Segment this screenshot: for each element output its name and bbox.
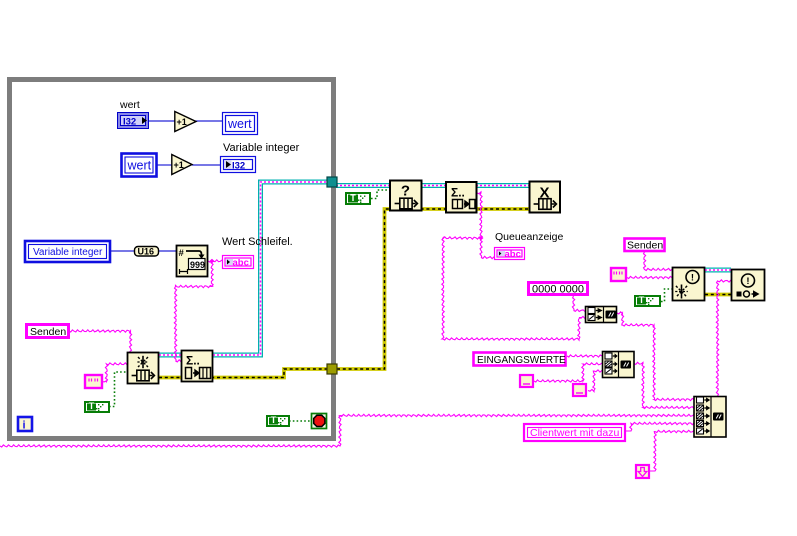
coercion bubble U16 xyxy=(135,247,159,257)
wire EINGANGSWERTE to concat B xyxy=(567,355,602,357)
node number-to-decimal-string xyxy=(177,246,208,277)
tunnel (queue refnum) on loop border xyxy=(327,177,337,187)
wire +1 to I32 indicator (row2) xyxy=(192,164,221,166)
wire queue status string out xyxy=(477,192,494,259)
svg-text:#: # xyxy=(179,248,185,259)
node release queue (X) xyxy=(530,182,561,213)
node obtain notifier xyxy=(673,268,705,301)
wire wert control to +1 (row2) xyxy=(156,164,172,166)
node concatenate strings A (2 inputs) xyxy=(586,307,617,323)
boolean constant to queue status (T) xyxy=(346,193,370,204)
wire number-to-string to Wert Schleifel indicator xyxy=(208,260,222,262)
wire T to obtain notifier xyxy=(661,289,672,302)
junction on queue status string xyxy=(479,236,484,241)
svg-text:wert: wert xyxy=(127,159,152,173)
while loop border xyxy=(10,80,334,439)
indicator "EINGANGSWERTE" xyxy=(474,353,567,367)
node concatenate strings B (3 inputs) xyxy=(603,352,635,378)
svg-text:wert: wert xyxy=(119,99,140,111)
boolean constant loop (to obtain queue) (T) xyxy=(85,401,109,412)
wire Variable integer to U16 xyxy=(110,250,135,252)
node queue status (?) xyxy=(390,181,422,211)
wire loop output long wire to big concat xyxy=(0,414,694,447)
control terminal I32 "wert" xyxy=(118,113,149,129)
wire Clientwert mit dazu to big concat xyxy=(626,422,694,431)
empty string constant xyxy=(85,375,102,388)
svg-text:Σ..: Σ.. xyxy=(186,354,200,368)
empty string constant 2 xyxy=(611,268,626,281)
node concatenate strings C (5 inputs) xyxy=(694,397,726,438)
svg-text:I32: I32 xyxy=(123,117,136,128)
wire string branch to lower concat xyxy=(442,237,585,340)
node flush queue xyxy=(446,182,477,213)
wire concat B out to big concat xyxy=(634,362,694,408)
wire T to obtain queue xyxy=(109,372,127,407)
wire notifier refnum (queue refnum) xyxy=(705,268,731,273)
wire empty string 2 to obtain notifier xyxy=(627,276,672,278)
svg-text:+1: +1 xyxy=(174,160,184,170)
svg-text:!: ! xyxy=(691,272,694,283)
node obtain queue xyxy=(128,353,159,384)
svg-text:EINGANGSWERTE: EINGANGSWERTE xyxy=(477,355,566,366)
wire enqueue up through tunnel to release queue (queue refnum) xyxy=(213,182,332,355)
iteration terminal i xyxy=(18,417,32,432)
svg-text:+1: +1 xyxy=(177,117,187,127)
wire notifier error (error cluster) xyxy=(705,293,731,297)
control "Variable integer" xyxy=(25,241,110,262)
control "Clientwert mit dazu" xyxy=(524,424,625,441)
control "Senden" (2) xyxy=(625,239,665,252)
svg-text:abc: abc xyxy=(233,258,249,269)
wire Senden 2 to obtain notifier xyxy=(644,252,673,271)
svg-text:T: T xyxy=(89,401,95,411)
svg-text:?: ? xyxy=(401,183,410,200)
wire 0000 0000 to concat A xyxy=(572,296,585,312)
wire I32 control to +1 (row1) xyxy=(148,120,175,122)
svg-text:Variable integer: Variable integer xyxy=(223,142,300,154)
wire T to queue status node xyxy=(371,190,390,199)
loop condition stop button xyxy=(312,414,327,429)
svg-text:Σ..: Σ.. xyxy=(451,186,465,200)
wire Senden to obtain queue xyxy=(69,330,132,352)
string indicator terminal "Wert Schleifel." (abc) xyxy=(223,256,254,269)
svg-text:abc: abc xyxy=(505,249,521,260)
svg-text:!: ! xyxy=(746,276,749,287)
svg-text:U16: U16 xyxy=(138,247,155,257)
wire empty string to obtain queue xyxy=(102,363,127,382)
svg-text:Senden: Senden xyxy=(627,240,663,252)
wire obtain queue error to tunnel (error cluster) xyxy=(159,369,327,378)
wire space const 1 to concat B xyxy=(534,363,602,382)
wire U16 to number-to-string xyxy=(158,250,177,252)
tunnel (error) on loop border xyxy=(327,364,337,374)
junction on number-to-string output xyxy=(210,259,215,264)
string indicator terminal "Queueanzeige" (abc) xyxy=(495,248,525,261)
wire T to loop stop xyxy=(289,420,311,422)
wire obtain queue to enqueue (queue refnum) xyxy=(159,353,181,358)
svg-text:0000 0000: 0000 0000 xyxy=(532,284,584,296)
svg-text:T: T xyxy=(350,193,356,203)
boolean constant to obtain notifier (T) xyxy=(635,295,660,306)
svg-text:999: 999 xyxy=(190,260,205,270)
svg-text:I32: I32 xyxy=(232,161,245,172)
string constant (space) 2 xyxy=(573,384,586,396)
increment node +1 (row2) xyxy=(172,155,192,175)
wire tunnel to queue status / flush / release (queue refnum) xyxy=(332,183,529,188)
wire big concat out to send notification xyxy=(716,280,731,396)
wire +1 to wert indicator (row1) xyxy=(195,120,224,122)
node enqueue element xyxy=(182,351,213,382)
wire space const 2 to concat B xyxy=(588,370,602,392)
svg-text:T: T xyxy=(271,415,277,425)
svg-text:i: i xyxy=(23,420,26,432)
control "Senden" xyxy=(27,325,69,339)
wire down arrow const to big concat xyxy=(650,430,694,471)
svg-text:T: T xyxy=(639,295,645,305)
svg-text:Clientwert mit dazu: Clientwert mit dazu xyxy=(530,427,619,439)
node send notification xyxy=(732,270,765,301)
boolean constant stop condition (T) xyxy=(267,415,289,426)
indicator terminal I32 "Variable integer" xyxy=(221,157,256,173)
svg-text:Wert Schleifel.: Wert Schleifel. xyxy=(222,236,293,248)
svg-text:Senden: Senden xyxy=(30,326,66,338)
control "wert" (row2) xyxy=(122,154,157,177)
wire string branch down to enqueue element xyxy=(174,261,213,362)
indicator "0000 0000" xyxy=(529,283,588,296)
wire tunnel to queue nodes error (error cluster) xyxy=(337,209,529,369)
increment node +1 (row1) xyxy=(175,112,196,132)
svg-text:wert: wert xyxy=(227,117,252,131)
down-arrow constant xyxy=(636,465,649,478)
svg-text:Variable integer: Variable integer xyxy=(33,247,103,258)
string constant (space) 1 xyxy=(520,375,533,387)
indicator "wert" (row1) xyxy=(223,113,258,135)
svg-text:Queueanzeige: Queueanzeige xyxy=(495,231,563,243)
wire concat A out to big concat xyxy=(617,312,694,401)
